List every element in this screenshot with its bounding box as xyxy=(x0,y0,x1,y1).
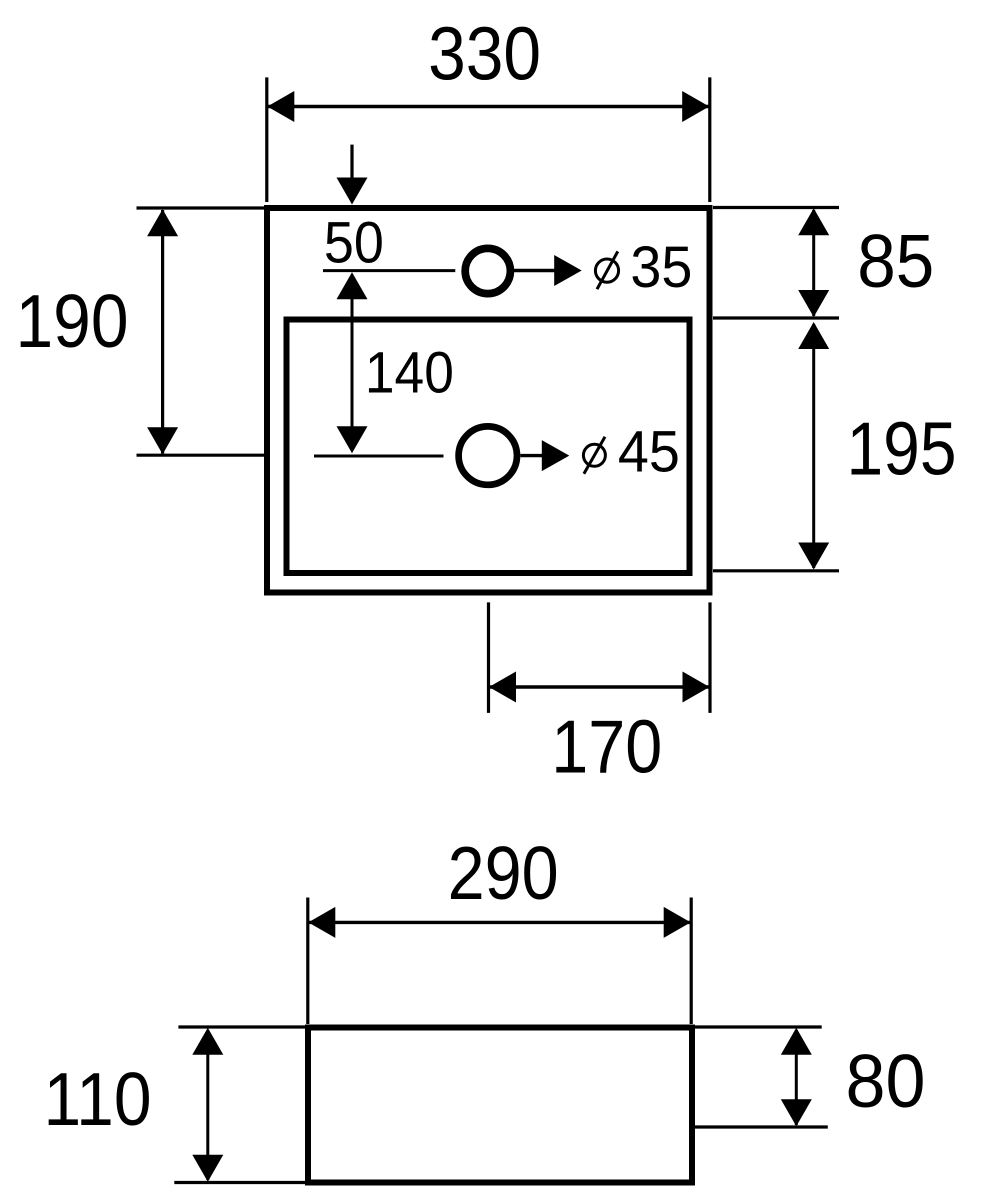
drain hole pointer shaft xyxy=(520,454,545,457)
svg-text:50: 50 xyxy=(324,211,384,276)
dim 195: bottom arrowhead xyxy=(798,543,829,570)
svg-text:110: 110 xyxy=(44,1057,152,1141)
diameter symbol for 45 xyxy=(583,444,605,466)
diameter symbol for 35 xyxy=(595,259,618,282)
svg-text:35: 35 xyxy=(630,235,692,300)
basin front view rectangle xyxy=(308,1028,692,1183)
svg-text:140: 140 xyxy=(365,341,454,406)
dim 80: bottom arrowhead xyxy=(781,1099,812,1126)
svg-text:330: 330 xyxy=(428,12,541,96)
dim 190: bottom arrowhead xyxy=(147,427,178,454)
svg-text:85: 85 xyxy=(857,219,934,303)
dim 85: bottom arrowhead xyxy=(798,290,829,317)
dim 190: top extension line xyxy=(137,206,265,209)
dim 170: right extension line xyxy=(708,602,711,713)
svg-text:80: 80 xyxy=(846,1039,926,1123)
dim 50: upper leader line xyxy=(350,145,353,179)
dim 290: right arrowhead xyxy=(664,907,691,938)
drain hole centerline (left of circle) xyxy=(314,455,444,458)
svg-text:290: 290 xyxy=(448,831,559,915)
basin top view: outer body rectangle xyxy=(267,208,710,593)
dim 80: top arrowhead xyxy=(781,1028,812,1055)
dim 290: left arrowhead xyxy=(308,907,335,938)
svg-text:195: 195 xyxy=(847,407,957,491)
dim 110: bottom arrowhead xyxy=(192,1155,223,1182)
dim 50: underline / faucet hole centerline xyxy=(323,269,455,272)
faucet hole circle (d35) xyxy=(465,248,510,293)
dim 110: top arrowhead xyxy=(192,1028,223,1055)
dim 330: right arrowhead xyxy=(682,91,709,122)
dim 140: up arrowhead xyxy=(337,272,368,299)
drain hole circle (d45) xyxy=(459,426,517,484)
dim 330: left arrowhead xyxy=(267,91,294,122)
dim 140: down arrowhead xyxy=(337,426,368,453)
dim 190: top arrowhead xyxy=(147,209,178,236)
dim 195: top arrowhead xyxy=(798,322,829,349)
dim 170: left arrowhead xyxy=(489,672,516,703)
dim 110: top extension line xyxy=(178,1025,305,1028)
dim 170: right arrowhead xyxy=(683,672,710,703)
dim 330: left extension line xyxy=(265,77,268,202)
dim 330: right extension line xyxy=(708,77,711,202)
dim 195: dimension line xyxy=(812,324,815,568)
dim 190: dimension line xyxy=(161,210,164,454)
dim 85: top extension line xyxy=(713,206,839,209)
faucet hole pointer shaft xyxy=(514,269,555,272)
drain hole pointer arrowhead xyxy=(542,440,570,471)
dim 290: left extension line xyxy=(306,898,309,1025)
dim 170: left extension line xyxy=(487,602,490,713)
dim 110: bottom extension line xyxy=(174,1181,305,1184)
dim 290: dimension line xyxy=(309,921,690,924)
dim 85: middle extension line xyxy=(713,316,839,319)
dim 195: bottom extension line xyxy=(713,569,839,572)
dim 50: down arrowhead at top edge xyxy=(337,178,368,205)
dim 80: top extension line xyxy=(695,1025,822,1028)
dim 170: dimension line xyxy=(490,685,709,688)
dim 80: dimension line xyxy=(795,1030,798,1125)
svg-text:190: 190 xyxy=(16,279,129,363)
dim 290: right extension line xyxy=(690,898,693,1025)
dim 110: dimension line xyxy=(206,1030,209,1180)
dim 80: bottom extension line xyxy=(695,1125,828,1128)
faucet hole pointer arrowhead xyxy=(554,255,582,286)
dim 85: top arrowhead xyxy=(798,208,829,235)
basin top view: inner bowl rectangle xyxy=(287,320,690,574)
dim 190: bottom extension line xyxy=(137,454,265,457)
dim 140: dimension line xyxy=(351,290,354,440)
svg-text:170: 170 xyxy=(551,705,662,789)
dim 85: dimension line xyxy=(812,210,815,316)
svg-text:45: 45 xyxy=(618,420,680,485)
dim 330: dimension line xyxy=(268,105,709,108)
